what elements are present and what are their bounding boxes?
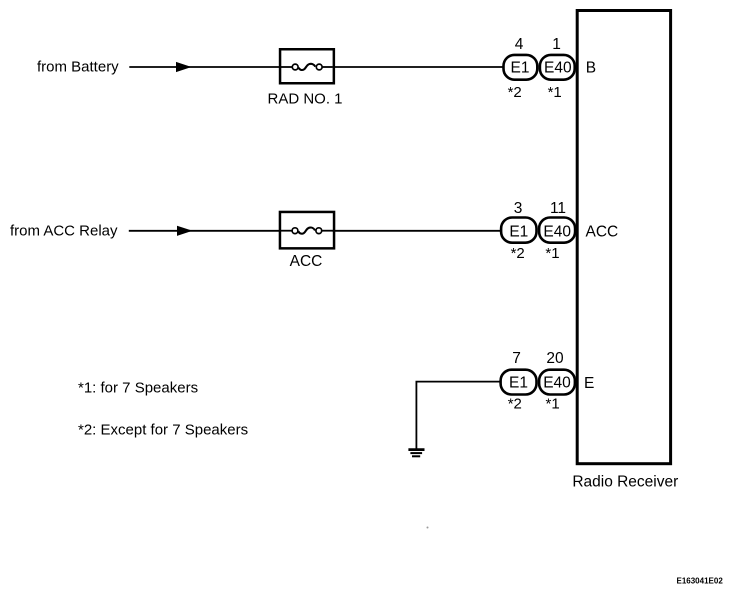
svg-text:E1: E1 <box>509 375 528 392</box>
svg-text:*2: Except for 7 Speakers: *2: Except for 7 Speakers <box>78 421 248 438</box>
svg-text:ACC: ACC <box>290 253 323 270</box>
svg-text:*2: *2 <box>508 396 522 413</box>
connector E1 row 2 <box>501 218 536 243</box>
svg-text:*1: *1 <box>545 245 559 262</box>
wire from Battery to fuse RAD NO. 1 <box>129 66 279 68</box>
ground <box>408 450 424 457</box>
wire fuse RAD NO. 1 to connector E1 <box>334 66 504 68</box>
svg-text:3: 3 <box>514 200 523 217</box>
radio receiver box U1 <box>577 11 670 464</box>
connector E1 row 1 <box>504 55 538 80</box>
svg-text:E40: E40 <box>543 223 571 240</box>
arrowhead row 2 <box>177 226 193 236</box>
wire fuse ACC to connector E1 <box>333 230 502 232</box>
svg-text:ACC: ACC <box>586 224 619 241</box>
svg-text:*1: *1 <box>548 84 562 101</box>
svg-text:*2: *2 <box>508 84 522 101</box>
svg-text:E1: E1 <box>511 59 530 76</box>
fuse RAD NO. 1 <box>280 49 334 83</box>
connector E40 row 1 <box>540 55 575 80</box>
svg-text:E: E <box>584 375 594 392</box>
svg-text:E40: E40 <box>544 59 572 76</box>
svg-text:4: 4 <box>515 36 524 53</box>
svg-text:11: 11 <box>550 200 566 217</box>
svg-text:7: 7 <box>512 350 521 367</box>
svg-text:from Battery: from Battery <box>37 59 119 76</box>
wire from ACC Relay to fuse ACC <box>129 230 280 232</box>
svg-text:from ACC Relay: from ACC Relay <box>10 223 118 240</box>
arrowhead row 1 <box>176 62 192 72</box>
svg-text:E40: E40 <box>543 375 571 392</box>
connector E1 row 3 <box>501 370 537 395</box>
fuse ACC <box>280 212 334 248</box>
svg-text:E163041E02: E163041E02 <box>677 576 724 585</box>
svg-text:B: B <box>586 60 596 77</box>
wire ground riser row 3 <box>416 382 500 449</box>
svg-text:*1: *1 <box>546 396 560 413</box>
svg-text:1: 1 <box>552 36 561 53</box>
svg-text:*2: *2 <box>511 245 525 262</box>
svg-text:*1: for 7 Speakers: *1: for 7 Speakers <box>78 380 198 397</box>
svg-text:20: 20 <box>546 350 564 367</box>
svg-text:RAD NO. 1: RAD NO. 1 <box>268 91 343 108</box>
svg-text:Radio Receiver: Radio Receiver <box>572 473 678 490</box>
svg-text:E1: E1 <box>509 223 528 240</box>
speck artifact <box>427 527 429 529</box>
connector E40 row 2 <box>539 218 575 243</box>
connector E40 row 3 <box>539 370 575 395</box>
